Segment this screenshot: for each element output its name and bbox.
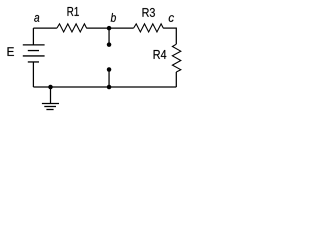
wire: R4 down to bottom right corner xyxy=(175,72,177,87)
wire: R1 to R3 through node b xyxy=(86,27,133,29)
node b dot xyxy=(107,26,112,31)
resistor R3 xyxy=(134,24,164,32)
junction dot on bottom wire below node b xyxy=(107,85,112,90)
wire: battery negative plate down to bottom wire xyxy=(32,62,34,87)
battery E plate 1 (long) xyxy=(23,44,45,46)
wire: R3 to node c corner xyxy=(163,27,176,29)
label R1 xyxy=(68,7,79,16)
upper terminal dot xyxy=(107,42,112,47)
node c label xyxy=(169,15,174,22)
node b label xyxy=(111,13,116,22)
node a label xyxy=(34,15,39,22)
wire: node a to R1 xyxy=(33,27,57,29)
label R3 xyxy=(143,8,155,17)
lower terminal dot xyxy=(107,67,112,72)
label R4 xyxy=(154,50,167,59)
wire: node c corner down to R4 xyxy=(175,28,177,45)
wire: ground stub xyxy=(50,87,52,104)
junction dot: ground connection on bottom wire xyxy=(48,85,53,90)
label E xyxy=(8,47,14,56)
wire: stub from node b down to upper terminal xyxy=(108,28,110,44)
wire: node a corner down to battery top plate xyxy=(32,28,34,45)
battery E plate 2 (short) xyxy=(28,50,39,52)
resistor R4 xyxy=(172,44,180,72)
wire: lower terminal down to bottom wire xyxy=(108,70,110,88)
battery E plate 3 (long) xyxy=(23,55,45,57)
resistor R1 xyxy=(57,24,87,32)
bottom wire xyxy=(33,86,176,88)
battery E plate 4 (short) xyxy=(28,61,39,63)
ground xyxy=(42,104,59,110)
